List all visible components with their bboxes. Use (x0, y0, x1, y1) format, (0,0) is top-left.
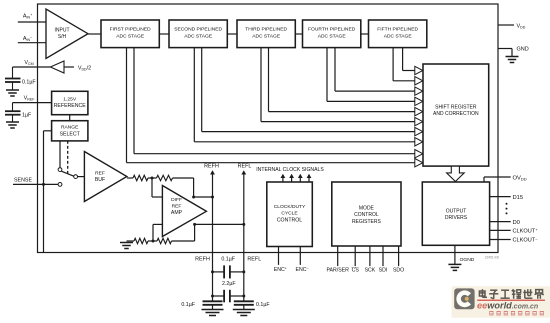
ground lower network (120, 242, 133, 244)
internal clock arrow 1 (282, 175, 284, 182)
ground below C6 (233, 309, 255, 311)
pin CLKOUT- (490, 239, 511, 241)
svg-text:SDO: SDO (393, 268, 404, 274)
svg-text:SDI: SDI (379, 268, 388, 274)
block range select (52, 121, 88, 141)
wire stage4 to stage5 (361, 33, 369, 35)
ground OGND (448, 263, 461, 265)
svg-text:ADC STAGE: ADC STAGE (252, 33, 281, 39)
wire sense to range select (43, 131, 45, 185)
pin lead x=398.6 (398, 246, 400, 266)
svg-text:MODE: MODE (359, 206, 375, 212)
node A (151, 177, 154, 180)
ground below C5 (202, 309, 224, 311)
svg-text:AND CORRECTION: AND CORRECTION (433, 111, 479, 117)
op-amp REF BUF (84, 152, 127, 202)
wire R4 to corner up (172, 240, 195, 242)
wire stage2 output bus (x=194.3) (193, 48, 195, 142)
capacitor C1 0.1uF (12, 67, 14, 79)
internal clock arrow 3 (299, 175, 301, 182)
wire sense down to bottom rail (43, 184, 45, 252)
wire AIN+ (18, 21, 46, 23)
watermark slogan (489, 311, 544, 315)
svg-text:REF: REF (95, 171, 105, 177)
capacitor C6 0.1uF to ground (234, 300, 254, 302)
op-amp VDD/2 buffer (50, 61, 64, 73)
capacitor C4 2.2uF (213, 295, 225, 297)
block clock/duty cycle control (267, 182, 313, 247)
block U4 FOURTH pipelined ADC stage (303, 20, 361, 48)
node REFH junction (211, 196, 214, 199)
svg-text:INTERNAL CLOCK SIGNALS: INTERNAL CLOCK SIGNALS (256, 167, 324, 173)
svg-text:SELECT: SELECT (60, 131, 81, 137)
svg-text:REFH: REFH (204, 163, 219, 169)
block U1 FIRST pipelined ADC stage (101, 20, 159, 48)
wire stage3 to stage4 (295, 33, 302, 35)
svg-text:0.1µF: 0.1µF (221, 257, 235, 263)
svg-text:REFL: REFL (238, 163, 252, 169)
svg-text:REFH: REFH (195, 257, 210, 263)
wire SENSE (13, 183, 58, 185)
capacitor C2 1uF (12, 103, 14, 112)
switch contact C (sense) (58, 183, 62, 187)
svg-text:THIRD PIPELINED: THIRD PIPELINED (245, 27, 287, 33)
wire stage4 output bus (x=335.0) (334, 48, 336, 92)
svg-text:0.1µF: 0.1µF (181, 302, 195, 308)
op-amp INPUT S/H (46, 9, 88, 59)
wire node D to REFL (195, 223, 244, 225)
resistor R4 (157, 238, 172, 243)
svg-text:REFL: REFL (247, 257, 261, 263)
svg-text:SHIFT REGISTER: SHIFT REGISTER (435, 105, 477, 111)
capacitor C3 0.1uF (213, 271, 225, 273)
pin VDD (498, 24, 514, 26)
watermark chinese title (drawn strokes) (479, 289, 543, 299)
node B (192, 196, 195, 199)
resistor R2 (157, 175, 173, 180)
svg-text:SENSE: SENSE (14, 178, 32, 184)
svg-text:1µF: 1µF (22, 113, 32, 119)
pin lead x=383.0 (382, 246, 384, 266)
pin ENC+ lead (278, 247, 280, 265)
wire R2 to corner (173, 177, 194, 179)
dashed control line (67, 141, 69, 175)
wire REFL rail (243, 172, 245, 302)
watermark logo square (452, 286, 550, 318)
pin GND lead (498, 48, 512, 50)
block U2 SECOND pipelined ADC stage (169, 20, 227, 48)
pin lead x=355.2 (354, 246, 356, 266)
wire stage1 to stage2 (159, 33, 169, 35)
wire ground to R3 (127, 240, 135, 242)
node REFL junction (242, 223, 245, 226)
wire stage5 output bus (x=402.6) (402, 48, 404, 71)
pin lead x=369.9 (369, 246, 371, 266)
switch blade (61, 171, 74, 176)
node D (193, 223, 196, 226)
op-amp DIFF REF AMP (162, 186, 206, 237)
svg-text:CLOCK/DUTY: CLOCK/DUTY (274, 204, 306, 210)
svg-text:FOURTH PIPELINED: FOURTH PIPELINED (308, 27, 356, 33)
pin D15 (490, 196, 511, 198)
svg-text:OGND: OGND (460, 257, 475, 263)
wire S/H to stage1 (88, 33, 101, 35)
svg-text:SECOND PIPELINED: SECOND PIPELINED (174, 27, 222, 33)
wire stage1 output bus (x=126.5) (126, 48, 128, 163)
svg-text:CLKOUT+: CLKOUT+ (513, 227, 539, 235)
svg-text:0.1µF: 0.1µF (256, 302, 270, 308)
svg-text:OVDD: OVDD (513, 175, 527, 181)
chip outline border (38, 4, 499, 253)
svg-text:DIFF: DIFF (171, 197, 182, 203)
svg-text:0.1µF: 0.1µF (22, 80, 36, 86)
svg-text:BUF: BUF (95, 177, 105, 183)
wire VREF (13, 102, 52, 104)
svg-text:AMP: AMP (171, 210, 183, 216)
svg-text:REGISTERS: REGISTERS (352, 219, 382, 225)
svg-text:ADC STAGE: ADC STAGE (184, 33, 213, 39)
svg-text:FIRST PIPELINED: FIRST PIPELINED (110, 27, 151, 33)
internal clock arrow 4 (308, 175, 310, 182)
wire stage4 output bus (x=327.0) (326, 48, 328, 102)
wire reference to range select (69, 115, 71, 121)
wire R3 to R4 (148, 240, 157, 242)
wire amp -input (153, 223, 162, 225)
svg-text:D15: D15 (513, 195, 524, 201)
svg-text:S/H: S/H (58, 34, 67, 40)
pin OVDD (483, 177, 485, 182)
svg-text:ADC STAGE: ADC STAGE (384, 33, 413, 39)
resistor R3 (134, 238, 148, 243)
svg-text:ADC STAGE: ADC STAGE (116, 33, 145, 39)
capacitor C5 0.1uF to ground (203, 300, 223, 302)
wire stage2 to stage3 (227, 33, 237, 35)
svg-text:D0: D0 (513, 220, 520, 226)
switch contact B (74, 175, 78, 179)
wire switch to ref buf (78, 176, 85, 178)
block 1.25V reference (52, 91, 88, 114)
svg-text:SCK: SCK (365, 268, 376, 274)
svg-text:CLKOUT–: CLKOUT– (513, 236, 539, 244)
wire node B to REFH (194, 196, 213, 198)
svg-text:GND: GND (517, 47, 529, 53)
wire stage3 output bus (x=261.0) (260, 48, 262, 122)
svg-text:OUTPUT: OUTPUT (446, 208, 467, 214)
wire stage3 output bus (x=268.5) (268, 48, 270, 112)
svg-text:1.25V: 1.25V (63, 97, 77, 103)
ellipsis bus dots (506, 203, 508, 205)
svg-text:2.2µF: 2.2µF (222, 281, 236, 287)
wire VCM (13, 66, 51, 68)
block shift register and correction (423, 64, 489, 166)
svg-text:PAR/SER: PAR/SER (326, 268, 349, 274)
resistor R1 (133, 175, 148, 180)
pin D0 (490, 221, 511, 223)
node sense junction (42, 183, 45, 186)
wire R1 to R2 (148, 177, 157, 179)
ground below C2 (6, 121, 19, 123)
ground below C1 (6, 89, 19, 91)
bus arrow shift register to output drivers (447, 166, 465, 181)
node C (152, 240, 155, 243)
svg-text:ADC STAGE: ADC STAGE (318, 33, 347, 39)
block mode control registers (332, 182, 401, 246)
wire stage5 output bus (x=393.1) (392, 48, 394, 81)
wire stage1 output bus (x=134.0) (133, 48, 135, 154)
watermark red rule (477, 300, 545, 301)
wire REFH rail (212, 172, 214, 302)
internal clock arrow 2 (291, 175, 293, 182)
svg-text:22451 BD: 22451 BD (485, 255, 500, 259)
block U3 THIRD pipelined ADC stage (237, 20, 295, 48)
svg-text:RANGE: RANGE (61, 125, 79, 131)
pin ENC- lead (299, 247, 301, 265)
svg-text:CYCLE: CYCLE (281, 211, 298, 217)
svg-text:CONTROL: CONTROL (354, 212, 379, 218)
wire AIN- (18, 42, 46, 44)
wire range select to switch contact (59, 141, 61, 168)
svg-text:CONTROL: CONTROL (277, 217, 302, 223)
svg-text:FIFTH PIPELINED: FIFTH PIPELINED (377, 27, 418, 33)
wire stage2 output bus (x=201.7) (201, 48, 203, 132)
svg-text:DRIVERS: DRIVERS (445, 215, 468, 221)
block output drivers (422, 182, 489, 245)
svg-text:REFERENCE: REFERENCE (54, 103, 87, 109)
pin CLKOUT+ (490, 229, 511, 231)
pin lead x=337.7 (337, 246, 339, 266)
wire ref buf output (127, 177, 133, 179)
wire node A to amp +input (151, 178, 153, 197)
switch contact A (58, 168, 62, 172)
svg-text:REF: REF (172, 204, 182, 210)
svg-text:CS: CS (352, 268, 360, 274)
pin OGND lead (454, 245, 456, 264)
block U5 FIFTH pipelined ADC stage (369, 20, 427, 48)
svg-text:INPUT: INPUT (55, 28, 70, 34)
ground GND pin (506, 56, 519, 58)
